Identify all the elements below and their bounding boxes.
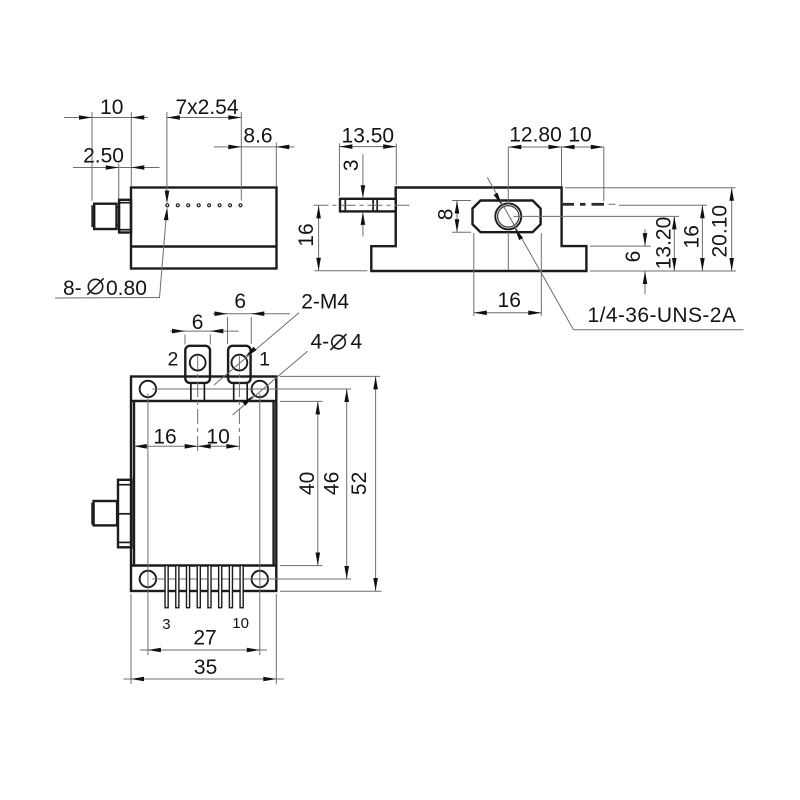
svg-text:4: 4 [351,331,363,354]
svg-text:13.20: 13.20 [653,217,676,270]
dimension 6 (tab 1 width) [213,290,290,344]
pins 3..10 (8x) [165,566,243,608]
dimension 16 (right, pin centre height) [619,205,707,271]
threaded hole circles [495,203,521,229]
dimension 27 (pin row span) [140,627,267,653]
top-right view: fiber/connector tube [340,199,396,212]
svg-text:7x2.54: 7x2.54 [175,96,238,119]
svg-text:4-: 4- [311,331,330,354]
svg-text:8: 8 [435,209,458,221]
svg-text:10: 10 [100,96,123,119]
dimension 7x2.54 (hole row pitch) [165,96,242,204]
svg-text:0.80: 0.80 [106,277,147,300]
svg-text:8.6: 8.6 [243,125,272,148]
centre line below slot [507,232,509,269]
svg-text:3: 3 [162,616,170,633]
dimension 10 (connector length) [64,96,148,201]
svg-text:27: 27 [193,627,216,650]
dimension 40 (body height) [280,401,323,565]
svg-text:35: 35 [194,656,217,679]
thread slot (chamfered) [473,201,541,233]
svg-text:6: 6 [192,311,204,334]
tab centre lines (dashed) [197,355,199,453]
svg-text:46: 46 [320,472,343,495]
label 8-dia0.80 with leader to first hole [55,207,168,300]
dimension 6 (right step height) [590,229,651,294]
svg-text:52: 52 [348,472,371,495]
dimension 16 (left, tube centre to base) [295,205,367,270]
dimension 52 (plate height) [280,376,382,591]
svg-text:6: 6 [234,290,246,313]
svg-text:2: 2 [167,349,178,371]
svg-text:1: 1 [259,349,270,371]
bottom view: module body outline [131,401,276,566]
svg-text:20.10: 20.10 [709,205,732,258]
top-right side view: stepped body outline [371,188,586,272]
terminal tab 1 (right) [228,346,251,401]
dimensions 16 and 10 (tab positions) [134,426,240,449]
mounting holes (4x) [140,381,268,588]
dimensions 12.80 and 10 (hole position / pin length) [508,124,604,205]
svg-text:40: 40 [296,472,319,495]
svg-text:10: 10 [206,426,229,449]
top-left view: row of 8 pin holes [166,204,242,207]
tube centre line [314,204,412,206]
svg-text:1/4-36-UNS-2A: 1/4-36-UNS-2A [588,304,737,327]
label 4-dia4 with leader [233,331,363,415]
dimension 6 (tab 2 width) [170,311,239,345]
label 1/4-36-UNS-2A with leader through thread [487,178,743,330]
svg-text:2-M4: 2-M4 [301,291,349,314]
svg-text:16: 16 [295,223,318,246]
terminal tab 2 (left) [185,346,210,401]
svg-text:3: 3 [340,159,363,171]
svg-text:6: 6 [622,251,645,263]
label 2-M4 with leader [214,291,349,385]
dimension 16 (below slot) [474,233,542,316]
bottom view: mounting flange plate [131,377,276,592]
bottom view: SMA connector (side) [91,480,131,548]
svg-text:2.50: 2.50 [83,145,124,168]
dimension 8 (slot width) [435,201,471,233]
dimension 35 (plate width) [124,594,285,684]
dimension 3 (tube diameter) [340,154,365,237]
hole centre lines [148,389,351,655]
dimension 20.10 (overall height) [565,188,736,271]
svg-text:10: 10 [232,615,249,632]
svg-text:16: 16 [681,225,704,248]
top-left view: SMA connector [91,200,131,233]
svg-text:16: 16 [153,426,176,449]
dimension 46 (hole spacing) [320,389,349,579]
svg-text:16: 16 [498,289,521,312]
dimension 2.50 (flange) [73,145,160,199]
dimension 8.6 (hole row to edge) [214,125,295,187]
dimension 13.50 (tube length) [339,125,396,197]
hidden pin (dashed bar) on right [562,203,616,206]
svg-text:10: 10 [568,124,591,147]
top-left side view: module body [131,188,277,269]
svg-text:13.50: 13.50 [342,125,395,148]
dimension 13.20 (hole centre height) [514,216,680,271]
svg-text:8-: 8- [63,277,82,300]
svg-text:12.80: 12.80 [509,124,562,147]
